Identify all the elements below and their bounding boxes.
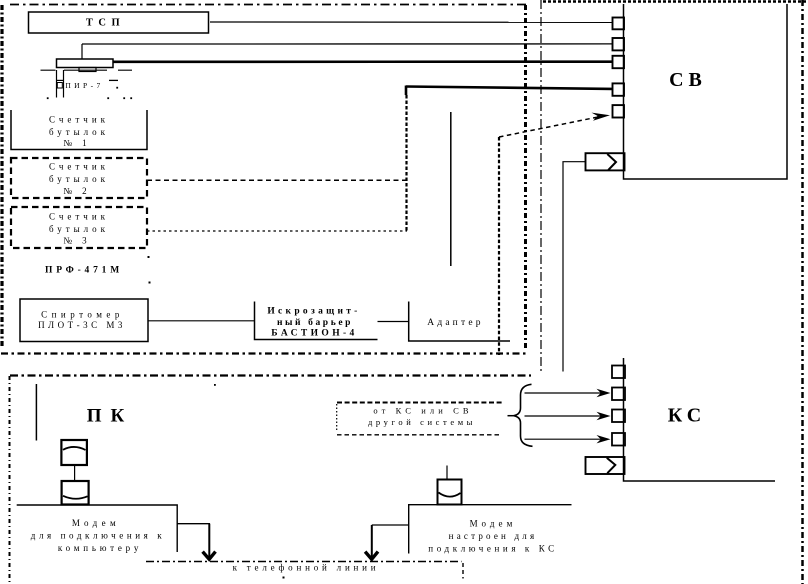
svg-text:Модем: Модем	[470, 519, 517, 529]
svg-text:от КС или СВ: от КС или СВ	[373, 406, 472, 416]
svg-text:другой системы: другой системы	[368, 417, 476, 427]
svg-text:ПК: ПК	[87, 406, 134, 427]
svg-text:Искрозащит-: Искрозащит-	[267, 307, 360, 317]
svg-text:Счетчик: Счетчик	[49, 115, 109, 125]
svg-text:СВ: СВ	[669, 69, 707, 91]
svg-text:ТСП: ТСП	[86, 18, 125, 29]
svg-text:Модем: Модем	[72, 518, 120, 528]
svg-text:компьютеру: компьютеру	[58, 543, 142, 553]
svg-text:бутылок: бутылок	[49, 224, 109, 234]
svg-text:к телефонной линии: к телефонной линии	[233, 563, 380, 573]
svg-text:№ 1: № 1	[63, 138, 90, 148]
svg-text:Спиртомер: Спиртомер	[41, 310, 124, 320]
svg-text:ПРФ-471М: ПРФ-471М	[45, 266, 123, 276]
svg-text:настроен для: настроен для	[449, 531, 538, 541]
svg-text:ПЛОТ-3С М3: ПЛОТ-3С М3	[38, 320, 126, 330]
svg-text:БАСТИОН-4: БАСТИОН-4	[271, 328, 357, 338]
svg-text:бутылок: бутылок	[49, 174, 109, 184]
svg-text:подключения к КС: подключения к КС	[428, 544, 557, 554]
svg-text:КС: КС	[668, 405, 706, 427]
svg-text:Счетчик: Счетчик	[49, 162, 109, 172]
svg-text:ный барьер: ный барьер	[277, 317, 353, 328]
svg-text:для подключения к: для подключения к	[31, 531, 165, 541]
svg-text:№ 2: № 2	[63, 186, 90, 196]
svg-text:бутылок: бутылок	[49, 127, 109, 137]
svg-text:№ 3: № 3	[63, 236, 90, 246]
svg-text:Счетчик: Счетчик	[49, 212, 109, 222]
svg-text:ПИР-7: ПИР-7	[65, 81, 103, 90]
svg-text:Адаптер: Адаптер	[427, 318, 483, 328]
